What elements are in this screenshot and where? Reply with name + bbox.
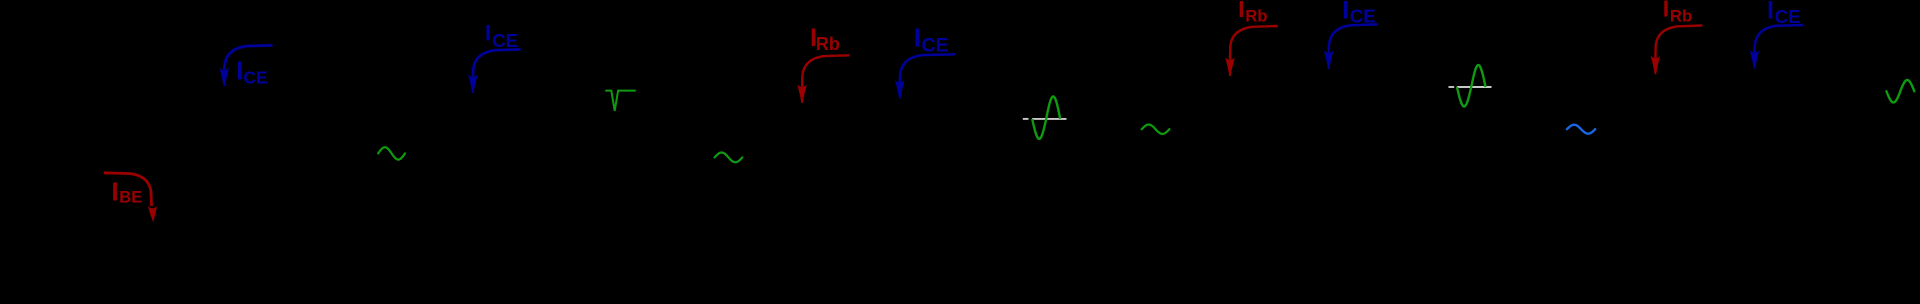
svg-text:I: I xyxy=(914,22,921,52)
input sine frame2 xyxy=(378,147,405,159)
svg-text:I: I xyxy=(1663,0,1669,22)
current arrow I_CE frame4 xyxy=(1324,0,1378,69)
svg-text:I: I xyxy=(485,21,491,46)
svg-text:Rb: Rb xyxy=(1245,6,1267,25)
current arrow I_CE frame3 xyxy=(895,22,955,98)
svg-text:CE: CE xyxy=(492,30,518,51)
svg-text:Rb: Rb xyxy=(816,34,840,54)
svg-text:BE: BE xyxy=(119,188,142,206)
output sine frame5 xyxy=(1886,80,1914,102)
svg-text:I: I xyxy=(111,177,118,207)
svg-text:I: I xyxy=(1767,0,1774,25)
svg-text:CE: CE xyxy=(1350,5,1376,26)
current arrow I_Rb frame3 xyxy=(797,24,849,103)
svg-text:I: I xyxy=(1342,0,1349,24)
current arrow I_CE frame2 xyxy=(468,21,520,93)
svg-text:Rb: Rb xyxy=(1670,6,1692,25)
output waveform with baseline frame4 xyxy=(1449,65,1492,107)
current arrow I_BE frame1 xyxy=(104,173,157,223)
current arrow I_Rb frame4 xyxy=(1225,0,1278,76)
current arrow I_Rb frame5 xyxy=(1651,0,1703,74)
output waveform with baseline frame3 xyxy=(1023,96,1067,138)
current arrow I_CE frame1 xyxy=(220,45,273,87)
input sine frame5 (blue) xyxy=(1567,125,1595,134)
input sine frame4 xyxy=(1142,125,1170,134)
svg-text:CE: CE xyxy=(1775,6,1801,27)
clipped output waveform frame2 xyxy=(605,91,636,111)
svg-text:CE: CE xyxy=(243,68,267,88)
svg-text:CE: CE xyxy=(922,34,949,56)
input sine frame3 xyxy=(715,153,743,163)
current arrow I_CE frame5 xyxy=(1750,0,1803,69)
svg-text:I: I xyxy=(236,56,243,86)
svg-text:I: I xyxy=(1238,0,1244,22)
